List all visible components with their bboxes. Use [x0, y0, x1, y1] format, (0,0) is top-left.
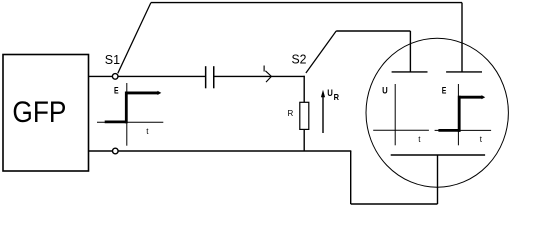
current arrow I [263, 65, 271, 83]
svg-text:E: E [442, 85, 447, 95]
wire up into oscilloscope bottom electrode [437, 155, 439, 204]
svg-text:R: R [288, 109, 294, 118]
wire generator bottom terminal to node [89, 150, 113, 152]
node S1 [105, 52, 120, 79]
svg-text:S2: S2 [292, 52, 307, 67]
bottom electrode line [391, 154, 485, 156]
graph E(t) at generator: labels [114, 85, 149, 136]
graph U(t) in scope: axes [373, 84, 429, 145]
voltage arrow UR [321, 88, 339, 133]
wire S2 blade to left deflection plate lead [336, 30, 410, 32]
wire bottom rail corner down [350, 151, 352, 204]
graph E(t) in scope: axes [435, 84, 492, 145]
graph E(t) in scope: step waveform [438, 95, 485, 132]
graph E(t) in scope: labels [442, 85, 483, 144]
function generator GFP [3, 55, 89, 172]
node on bottom rail [113, 148, 119, 154]
switch S2 blade [292, 31, 337, 73]
wire corner S2 down to resistor [303, 76, 305, 103]
wire generator top terminal to node S1 [89, 75, 113, 77]
capacitor C [206, 66, 214, 88]
wire vertical down to left deflection plate [409, 31, 411, 72]
svg-text:U: U [327, 88, 333, 98]
left deflection plate [392, 71, 428, 73]
wire bottom horizontal to oscilloscope [351, 203, 438, 205]
wire node S1 to capacitor [118, 75, 205, 77]
svg-text:R: R [334, 92, 339, 102]
graph E(t) at generator: step waveform [105, 91, 162, 124]
wire top horizontal from S1 blade to oscilloscope right plate lead [151, 2, 462, 4]
wire resistor to bottom rail [303, 129, 305, 151]
right deflection plate [446, 71, 482, 73]
wire capacitor to corner at S2 [214, 75, 305, 77]
svg-text:I: I [263, 65, 265, 74]
wire vertical down to right deflection plate [461, 3, 463, 72]
svg-text:E: E [114, 85, 119, 95]
svg-text:GFP: GFP [12, 96, 66, 129]
graph E(t) at generator: axes [97, 83, 163, 146]
resistor R [288, 102, 309, 129]
svg-text:U: U [382, 85, 388, 95]
graph U(t) in scope: labels [382, 85, 421, 144]
wire bottom rail [118, 150, 351, 152]
svg-text:S1: S1 [105, 52, 120, 67]
switch S1 blade [118, 3, 151, 74]
oscilloscope tube (circle) [366, 38, 508, 187]
